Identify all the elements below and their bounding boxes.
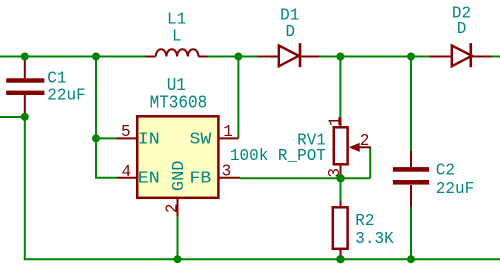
pin 5 IN <box>116 137 137 139</box>
wiper arrow pin 2 <box>350 144 359 152</box>
svg-text:1: 1 <box>223 121 233 141</box>
capacitor C1 <box>6 57 85 114</box>
wire left mid input <box>0 116 25 118</box>
node RV1-R2-FB junction <box>336 174 344 182</box>
svg-text:1: 1 <box>325 116 345 126</box>
svg-text:MT3608: MT3608 <box>150 94 208 114</box>
potentiometer RV1 R_POT <box>230 116 371 177</box>
node top C1 junction <box>21 53 29 61</box>
svg-text:C2: C2 <box>436 160 455 180</box>
node L1-D1-SW junction <box>234 53 242 61</box>
svg-text:100k R_POT: 100k R_POT <box>230 145 326 165</box>
svg-text:SW: SW <box>190 131 213 150</box>
pin 2 GND <box>177 199 179 216</box>
wire top rail left segment <box>0 56 145 58</box>
wire top rail L1-to-D1 segment <box>208 56 258 58</box>
wire FB to RV1 junction <box>240 177 370 179</box>
node C2 bottom junction <box>407 255 415 263</box>
resistor R2 <box>333 201 394 256</box>
svg-text:4: 4 <box>121 162 131 182</box>
svg-text:3.3K: 3.3K <box>355 228 393 248</box>
svg-text:5: 5 <box>121 121 131 141</box>
wire C2 bottom <box>410 207 412 259</box>
wire RV1 bottom to R2 <box>340 178 342 201</box>
svg-text:L: L <box>172 26 182 46</box>
svg-text:2: 2 <box>162 203 182 213</box>
node R2 bottom junction <box>336 255 344 263</box>
wire R2 bottom <box>340 250 342 259</box>
wire D1 out to RV1 top <box>339 57 341 119</box>
wire bottom rail <box>24 258 500 260</box>
capacitor C2 <box>393 151 474 207</box>
pin 3 FB <box>219 177 241 179</box>
pin 4 EN <box>117 177 137 179</box>
wire IN feed vertical <box>96 57 116 139</box>
svg-text:GND: GND <box>170 160 189 191</box>
node IN-EN junction <box>92 134 100 142</box>
svg-text:D: D <box>285 21 295 41</box>
IC U1 MT3608 <box>116 76 240 216</box>
wire C2 top <box>410 57 412 152</box>
wire left rail vertical <box>24 117 26 259</box>
svg-text:EN: EN <box>138 170 160 189</box>
node D2 anode junction <box>407 53 415 61</box>
wire top rail D1-to-D2 segment <box>319 56 430 58</box>
wire top rail right end segment <box>492 56 500 58</box>
svg-text:R2: R2 <box>355 211 374 231</box>
svg-text:22uF: 22uF <box>436 179 474 199</box>
svg-text:2: 2 <box>360 131 370 151</box>
svg-text:IN: IN <box>138 131 160 150</box>
svg-text:FB: FB <box>190 170 212 189</box>
pin 1 SW <box>219 137 239 139</box>
svg-text:22uF: 22uF <box>47 85 85 105</box>
wire GND drop <box>177 216 179 259</box>
node left mid junction <box>21 113 29 121</box>
diode D1 <box>258 5 320 67</box>
wire SW riser <box>237 57 239 139</box>
node D1 cathode junction <box>336 53 344 61</box>
diode D2 <box>430 3 492 67</box>
svg-text:D: D <box>457 19 467 39</box>
node top IN-feed junction <box>92 53 100 61</box>
node GND bottom junction <box>174 255 182 263</box>
wire RV1 wiper drop <box>369 147 371 178</box>
wire EN feed <box>96 138 117 177</box>
inductor L1 <box>145 9 208 56</box>
